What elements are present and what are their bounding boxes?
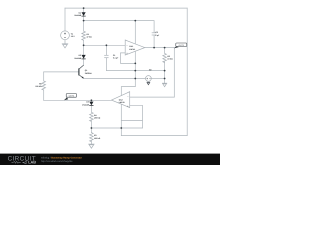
label D3 — [82, 101, 89, 107]
diode D2 — [82, 55, 86, 59]
svg-text:D1: D1 — [79, 11, 81, 14]
wire R2 bottom to gnd node — [164, 62, 166, 84]
wire V2 right lead — [151, 78, 164, 80]
wire R5 top stub — [43, 72, 45, 81]
wire right rail down — [186, 8, 188, 136]
node flag OUT1 — [174, 43, 187, 48]
svg-text:2N3904: 2N3904 — [85, 72, 93, 75]
svg-text:LM741: LM741 — [119, 101, 125, 104]
voltage source V1 — [61, 31, 70, 40]
wire output down to OA2 in — [173, 48, 175, 98]
wire feedback rung — [121, 120, 142, 122]
label V2 — [149, 68, 152, 71]
wire R2 top stub — [164, 48, 166, 54]
label R5 — [35, 83, 42, 89]
diode D1 — [82, 12, 86, 16]
wire bottom rail to OA2 V+ pin — [121, 135, 187, 137]
diode D3 — [89, 102, 93, 106]
ground V2/R2 node — [162, 83, 167, 87]
transistor Q1 — [79, 65, 84, 78]
junction dots — [83, 7, 166, 129]
resistor R5 — [42, 81, 46, 90]
svg-text:1N4148: 1N4148 — [74, 57, 81, 60]
wire D1 anode stub — [83, 8, 85, 12]
footer bar — [0, 154, 220, 165]
label OA1 — [129, 45, 135, 51]
capacitor C1 — [104, 55, 108, 57]
wire OA2 bottom pin — [120, 104, 122, 135]
wire D1 cathode to node — [83, 16, 85, 31]
wire R3 bottom to gnd — [90, 141, 92, 144]
wire R1 bottom to D2 — [83, 40, 85, 55]
label R3 — [94, 134, 101, 140]
label C1 — [113, 54, 119, 60]
voltage source V2 — [146, 76, 152, 82]
wire C1 bottom run — [106, 58, 164, 71]
svg-text:R1: R1 — [87, 33, 89, 36]
svg-text:V1: V1 — [71, 32, 73, 35]
node flag OUT2 — [64, 94, 77, 101]
wire D3 stub — [90, 100, 92, 101]
label R1 — [87, 33, 93, 39]
wire ramp node to OA1 +in — [84, 44, 126, 46]
svg-text:R3: R3 — [94, 134, 96, 137]
label Q1 — [85, 69, 93, 75]
wire R5 bottom to OUT2 wire — [43, 90, 45, 100]
wire D2 cathode to Q1 collector — [83, 59, 85, 65]
svg-text:http://circuitlab.com/c/hwg45e: http://circuitlab.com/c/hwg45e — [41, 160, 73, 163]
svg-text:R5: R5 — [39, 83, 41, 86]
resistor R3 — [90, 133, 94, 142]
svg-text:100 kΩ: 100 kΩ — [94, 117, 101, 120]
svg-text:LM741: LM741 — [129, 48, 135, 51]
label V1 — [71, 32, 76, 38]
svg-text:1N4148: 1N4148 — [82, 103, 89, 106]
wire OA1 -in feedback bend — [121, 53, 136, 64]
svg-text:OA2: OA2 — [119, 98, 123, 101]
label R2 — [167, 55, 173, 61]
svg-text:100 kΩ: 100 kΩ — [35, 85, 42, 88]
wire OA1 output — [145, 47, 175, 49]
svg-text:0.1 µF: 0.1 µF — [113, 57, 119, 60]
svg-text:1N4148: 1N4148 — [74, 14, 81, 17]
resistor R1 — [82, 31, 86, 40]
ground under V2 — [147, 82, 151, 85]
svg-text:C2: C2 — [155, 31, 157, 34]
svg-text:C1: C1 — [113, 54, 115, 57]
wire OA2 bottom input feedback — [130, 105, 143, 128]
label C2 — [155, 31, 160, 37]
wire C1 top stem — [105, 45, 107, 55]
wire R4 bottom — [90, 120, 92, 132]
svg-text:OA1: OA1 — [129, 45, 133, 48]
label OA2 — [119, 98, 125, 104]
wire OA1 V- pin down to OA2 — [121, 51, 135, 96]
wire OA1 V+ pin — [134, 21, 136, 44]
wire Q1 emitter rail to V2 — [84, 78, 146, 80]
svg-text:LAB: LAB — [28, 161, 36, 165]
op-amp OA2 — [112, 92, 130, 108]
svg-text:D3: D3 — [86, 101, 88, 104]
wire C2 bottom to output — [153, 35, 155, 47]
svg-text:10 kΩ: 10 kΩ — [167, 58, 173, 61]
svg-text:OUT1: OUT1 — [179, 44, 185, 47]
resistor R4 — [90, 112, 94, 121]
label D2 — [74, 54, 81, 60]
capacitor C2 — [152, 33, 157, 35]
wire bootstrap node to C2 — [84, 21, 155, 33]
wire divider tap — [91, 127, 142, 129]
wire OA2 top input — [130, 96, 175, 98]
wire V1 stem — [64, 8, 66, 31]
resistor R2 — [163, 53, 167, 62]
wire D3 cathode to R4 — [90, 106, 92, 113]
svg-text:Q1: Q1 — [85, 69, 88, 72]
label R4 — [94, 114, 101, 120]
svg-text:47 kΩ: 47 kΩ — [87, 36, 93, 39]
op-amp OA1 — [125, 40, 145, 55]
svg-text:OUT2: OUT2 — [69, 95, 75, 98]
svg-text:R2: R2 — [167, 55, 169, 58]
label D1 — [74, 11, 81, 17]
wire OUT2 run to OA2 output — [44, 99, 112, 101]
svg-text:mikelug / Bootstrap Ramp Gener: mikelug / Bootstrap Ramp Generator — [41, 156, 82, 159]
ground below V1 — [62, 44, 68, 48]
svg-text:D2: D2 — [79, 54, 81, 57]
ground below R3 — [88, 144, 94, 148]
svg-text:100 kΩ: 100 kΩ — [94, 137, 101, 140]
wire Q1 base — [44, 71, 79, 73]
wire top rail V1 to right — [65, 7, 187, 9]
